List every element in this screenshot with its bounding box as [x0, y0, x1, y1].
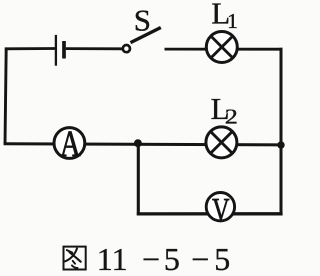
wire right vertical	[280, 48, 283, 215]
svg-text:S: S	[134, 2, 151, 37]
caption dash 1	[142, 241, 160, 276]
lamp L2 circle	[206, 127, 237, 158]
wire top-left segment	[5, 47, 56, 50]
svg-text:V: V	[212, 192, 230, 229]
label S	[134, 2, 151, 37]
label L2	[211, 91, 238, 128]
svg-text:−: −	[142, 241, 160, 276]
svg-text:5: 5	[164, 241, 180, 276]
caption text 5 (second)	[214, 241, 230, 276]
switch S pivot circle	[123, 45, 130, 52]
ammeter A letter	[60, 125, 81, 165]
ammeter A circle	[54, 128, 85, 159]
voltmeter V circle	[206, 193, 234, 221]
battery B1 short plate	[62, 41, 66, 59]
switch S blade (open)	[131, 28, 161, 43]
lamp L1 cross	[211, 36, 233, 58]
junction node left dot	[134, 139, 142, 147]
lamp L1 circle	[206, 32, 237, 63]
battery B1 long plate	[55, 35, 57, 66]
wire branch vertical	[137, 143, 140, 215]
label L1	[211, 0, 238, 33]
caption dash 2	[191, 241, 209, 276]
voltmeter V letter	[212, 192, 230, 229]
svg-text:11: 11	[97, 241, 128, 276]
caption text 5	[164, 241, 180, 276]
svg-text:5: 5	[214, 241, 230, 276]
svg-text:A: A	[60, 125, 81, 165]
svg-text:1: 1	[227, 9, 238, 33]
junction node right dot	[277, 141, 284, 148]
wire battery to switch	[66, 47, 123, 50]
wire switch to L1 to top-right corner	[165, 48, 283, 51]
caption text 11	[97, 241, 128, 276]
svg-text:2: 2	[225, 106, 238, 129]
wire left vertical	[5, 48, 6, 145]
lamp L2 cross	[210, 131, 232, 153]
svg-text:−: −	[191, 241, 209, 276]
caption character tu (drawn CJK)	[64, 247, 86, 270]
wire middle horizontal	[4, 144, 283, 145]
wire bottom horizontal	[137, 212, 283, 215]
